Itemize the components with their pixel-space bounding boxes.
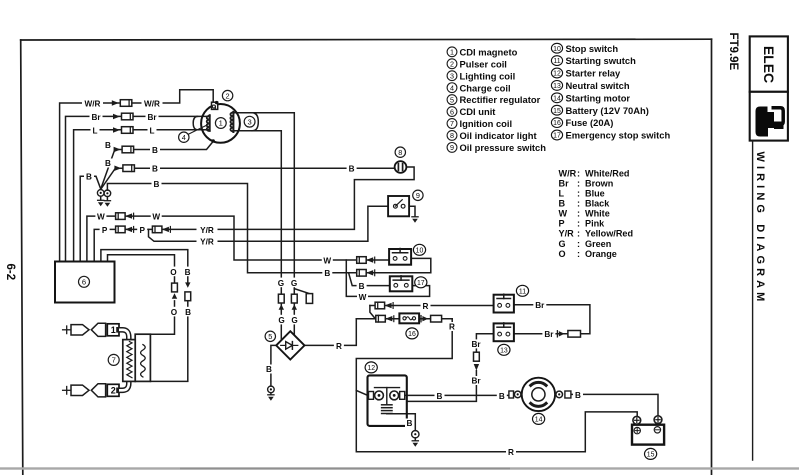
svg-text:B: B: [499, 392, 505, 401]
label pointer line for charge coil: [188, 125, 206, 134]
svg-text:Y/R: Y/R: [559, 229, 575, 239]
svg-text:Br: Br: [544, 330, 554, 339]
svg-text:W: W: [323, 256, 331, 265]
wire Br neutral switch to starter relay: [407, 334, 494, 402]
svg-text:Br: Br: [559, 178, 570, 188]
svg-text:14: 14: [535, 417, 543, 424]
wire B ground lead from CDI unit: [80, 176, 100, 262]
svg-text:B: B: [185, 308, 191, 317]
svg-text:L: L: [559, 189, 565, 199]
wire Br starting switch to neutral switch: [514, 305, 590, 334]
svg-text:G: G: [559, 239, 566, 249]
svg-text:7: 7: [112, 356, 116, 365]
svg-text:FT9.9E: FT9.9E: [727, 33, 739, 71]
sidebar WIRING DIAGRAM text: [754, 152, 766, 306]
svg-text:1: 1: [450, 48, 454, 57]
svg-text:9: 9: [416, 191, 420, 200]
reference circle 4 charge coil: [179, 132, 189, 142]
svg-text:Y/R: Y/R: [200, 226, 214, 235]
reference circle 7 ignition coil: [108, 354, 119, 365]
svg-text:17: 17: [417, 280, 425, 287]
wire B branch to emergency stop switch: [349, 273, 390, 286]
svg-text::: :: [577, 199, 580, 209]
svg-text::: :: [577, 189, 580, 199]
reference circle 6 CDI unit: [79, 276, 90, 287]
svg-text:B: B: [559, 199, 566, 209]
wire R fuse row: [356, 318, 452, 320]
svg-text:Oil indicator light: Oil indicator light: [460, 130, 537, 141]
svg-text:W: W: [152, 213, 160, 222]
svg-text::: :: [577, 168, 580, 178]
oil pressure switch S5 box: [388, 196, 409, 216]
charge coil winding symbol: [193, 115, 210, 131]
ring terminal at rectifier ground: [268, 386, 275, 393]
reference circle 3 lighting coil: [244, 116, 255, 127]
starting motor M1: [509, 378, 571, 411]
svg-text:13: 13: [553, 83, 561, 90]
CDI magneto U1 outer circle: [201, 104, 240, 143]
starter relay K1 box: [368, 375, 407, 426]
sidebar icon box: [750, 92, 788, 141]
svg-text:2: 2: [450, 59, 454, 68]
svg-text:P: P: [139, 226, 145, 235]
svg-text:R: R: [423, 302, 429, 311]
spark plug 1: [63, 323, 119, 336]
svg-text:Starting motor: Starting motor: [566, 92, 631, 103]
svg-text:14: 14: [553, 95, 561, 102]
bullet connector on W/R wire: [112, 100, 132, 107]
bullet connector on B wire 1: [114, 146, 134, 153]
svg-text:B: B: [105, 141, 111, 150]
svg-text::: :: [577, 178, 580, 188]
svg-text:O: O: [171, 308, 178, 317]
reference circle 9 oil pressure switch: [413, 190, 423, 200]
svg-text:Emergency stop switch: Emergency stop switch: [566, 130, 671, 141]
svg-text:L: L: [92, 126, 97, 135]
wire B starter relay to starting motor: [404, 394, 509, 396]
node junction dot at pulser coil: [215, 101, 218, 104]
svg-text:15: 15: [647, 452, 655, 459]
wire R to starting switch: [370, 305, 494, 307]
bullet connector on G wire right: [291, 294, 297, 310]
bullet connector at fuse output: [421, 315, 442, 322]
wire W (CDI to stop switch): [87, 216, 389, 262]
svg-text:Neutral switch: Neutral switch: [566, 80, 630, 91]
svg-text:P: P: [559, 219, 565, 229]
wire W branch to emergency stop switch: [346, 260, 429, 296]
reference circle 17 emergency stop switch: [415, 277, 427, 288]
svg-text:Black: Black: [585, 199, 610, 209]
bottom scan edge band: [0, 467, 799, 469]
node ground junction ring terminals: [97, 190, 110, 200]
svg-text:Br: Br: [535, 301, 545, 310]
svg-text:Charge coil: Charge coil: [460, 82, 511, 93]
svg-text:B: B: [105, 159, 111, 168]
bullet connector on Br wire below neutral switch: [474, 352, 480, 370]
svg-text:Starter relay: Starter relay: [566, 68, 622, 79]
svg-text:B: B: [152, 146, 158, 155]
page border frame: [21, 39, 712, 475]
svg-text:16: 16: [553, 120, 561, 127]
svg-text:W/R: W/R: [85, 99, 101, 108]
wire Y/R branch to oil pressure switch: [149, 206, 389, 241]
svg-text:Orange: Orange: [585, 249, 617, 259]
sidebar ELEC box: [750, 36, 788, 91]
svg-text:Br: Br: [91, 113, 101, 122]
svg-text:1: 1: [111, 325, 116, 335]
svg-text:B: B: [349, 165, 355, 174]
svg-text:6: 6: [450, 107, 454, 116]
svg-text:R: R: [508, 448, 514, 457]
wire R branch into starter relay: [356, 391, 368, 396]
reference circle 10 stop switch: [413, 244, 425, 255]
ignition coil T1: [123, 334, 151, 381]
starting switch S2 box: [494, 294, 514, 312]
wire R rectifier output: [305, 319, 357, 346]
svg-text:13: 13: [500, 347, 508, 354]
svg-text:CDI unit: CDI unit: [460, 106, 496, 117]
svg-text:3: 3: [450, 71, 454, 80]
bullet connector on B wire at stop switch: [357, 270, 375, 277]
wire G lighting coil lower: [233, 131, 281, 340]
ring terminal at relay ground: [412, 431, 419, 438]
page header FT9.9E: [727, 33, 739, 71]
rectifier regulator D1 diamond: [276, 331, 304, 359]
svg-text:Green: Green: [585, 239, 611, 249]
wire B magneto lead 2 to oil light: [101, 168, 395, 189]
svg-text:W: W: [559, 209, 568, 219]
svg-text:B: B: [185, 268, 191, 277]
svg-text:Brown: Brown: [585, 178, 613, 188]
wire O CDI unit to ignition coil: [108, 255, 175, 335]
bullet connector on R wire to starting switch: [375, 302, 393, 309]
svg-text:G: G: [291, 279, 297, 288]
spare connector near rectifier: [306, 294, 312, 304]
svg-text:10: 10: [553, 46, 561, 53]
legend list items 10-17: [551, 43, 670, 141]
svg-text:Starting swutch: Starting swutch: [566, 55, 637, 66]
svg-text:Stop switch: Stop switch: [566, 43, 619, 54]
svg-text:2: 2: [111, 386, 116, 396]
page number 6-2: [4, 264, 16, 281]
svg-text:WIRING DIAGRAM: WIRING DIAGRAM: [754, 152, 766, 306]
ground symbol at oil pressure switch: [412, 217, 418, 223]
CDI unit U2 box: [55, 262, 115, 303]
bullet connector on G wire left: [278, 294, 284, 310]
svg-text:B: B: [324, 269, 330, 278]
wire Br (CDI unit to charge coil): [66, 116, 210, 262]
bullet connector on Br wire to neutral switch: [557, 331, 580, 338]
svg-text:G: G: [291, 316, 297, 325]
bullet connector 1 on P wire: [116, 226, 134, 233]
reference circle 2 pulser coil: [222, 90, 232, 100]
svg-text:CDI magneto: CDI magneto: [460, 46, 518, 57]
svg-text:5: 5: [268, 332, 272, 341]
svg-text::: :: [577, 209, 580, 219]
wire name labels: [82, 98, 583, 457]
svg-text:ELEC: ELEC: [761, 46, 777, 83]
svg-text:8: 8: [450, 131, 454, 140]
ground symbol below starter relay: [412, 438, 418, 447]
svg-text:O: O: [170, 268, 177, 277]
svg-text:Br: Br: [147, 113, 157, 122]
svg-text:Y/R: Y/R: [200, 238, 214, 247]
svg-text:G: G: [278, 316, 284, 325]
wire B magneto frame lead 1: [101, 141, 213, 189]
svg-text:Br: Br: [471, 377, 481, 386]
svg-text::: :: [577, 229, 580, 239]
pulser coil P2 pickup box: [212, 102, 218, 109]
svg-text:10: 10: [416, 247, 424, 254]
wire R fuse to battery junction: [356, 319, 637, 452]
svg-text::: :: [577, 249, 580, 259]
reference circle 16 fuse: [406, 328, 418, 339]
svg-text:Br: Br: [471, 340, 481, 349]
svg-text:White: White: [585, 209, 610, 219]
svg-text:P: P: [102, 226, 108, 235]
reference circle 13 neutral switch: [498, 344, 510, 355]
svg-text:1: 1: [219, 119, 223, 128]
bullet connector on W wire: [116, 213, 134, 220]
battery BT1: [632, 416, 664, 445]
diode symbol inside rectifier: [281, 342, 298, 350]
svg-text:4: 4: [182, 133, 186, 142]
svg-text:7: 7: [450, 119, 454, 128]
svg-text:6-2: 6-2: [4, 264, 16, 281]
reference circle 1 CDI magneto: [215, 118, 226, 129]
sidebar ELEC text: [761, 46, 777, 83]
svg-text:B: B: [266, 365, 272, 374]
bullet connector on L wire: [113, 127, 133, 134]
reference circle 15 battery: [645, 448, 657, 459]
bullet connector on W wire at stop switch: [357, 257, 375, 264]
emergency stop switch S6 box: [390, 276, 413, 292]
svg-text:Fuse (20A): Fuse (20A): [566, 117, 614, 128]
svg-text:White/Red: White/Red: [585, 168, 629, 178]
svg-text:Rectifier regulator: Rectifier regulator: [460, 94, 541, 105]
reference circle 12 starter relay: [365, 362, 377, 373]
stop switch S1 box: [389, 249, 411, 265]
wire W/R (CDI unit to pulser coil): [60, 90, 214, 262]
svg-text:Pink: Pink: [585, 219, 605, 229]
bullet connector on B wire 2: [114, 165, 134, 172]
ground symbol below rectifier: [268, 393, 274, 401]
svg-text:9: 9: [450, 143, 454, 152]
wire from oil pressure switch to ground: [409, 206, 415, 216]
svg-text:3: 3: [247, 117, 251, 126]
wire B relay coil to ground: [387, 414, 416, 431]
wire R fuse input hook: [370, 306, 375, 319]
oil indicator light L1 lamp: [395, 161, 407, 173]
bullet connector on O wire: [172, 283, 178, 299]
bullet connector on Br wire: [113, 113, 133, 120]
wire B bus to stop switches: [107, 184, 430, 273]
svg-text:W/R: W/R: [144, 99, 160, 108]
high tension lead to spark plug 1: [119, 330, 129, 341]
neutral switch S3 box: [494, 323, 514, 341]
svg-text:B: B: [152, 165, 158, 174]
svg-text:2: 2: [226, 91, 230, 100]
svg-text:Yellow/Red: Yellow/Red: [585, 229, 633, 239]
bullet connector on R wire at fuse input: [376, 315, 394, 322]
fuse F1 box: [399, 313, 419, 323]
legend list items 1-9: [447, 46, 546, 153]
svg-text:W/R: W/R: [559, 168, 577, 178]
reference circle 5 rectifier regulator: [265, 331, 275, 341]
svg-text:Battery (12V 70Ah): Battery (12V 70Ah): [566, 105, 649, 116]
bullet connector on B wire to ignition coil: [185, 282, 191, 300]
wire P / Y-R (CDI to oil indicator light): [94, 167, 414, 262]
svg-text:6: 6: [82, 278, 86, 287]
svg-text:G: G: [278, 279, 284, 288]
svg-text:16: 16: [408, 331, 416, 338]
svg-text:L: L: [149, 126, 154, 135]
bullet connector 2 on P wire: [152, 226, 170, 233]
svg-text:B: B: [86, 173, 92, 182]
svg-text:12: 12: [367, 365, 375, 372]
svg-text:Pulser coil: Pulser coil: [460, 58, 507, 69]
reference circle 11 starting switch: [516, 285, 528, 296]
svg-text:O: O: [559, 249, 566, 259]
high tension lead to spark plug 2: [119, 380, 129, 390]
svg-text:Lighting coil: Lighting coil: [460, 70, 516, 81]
svg-text:11: 11: [519, 288, 526, 295]
wire B starting motor to battery: [571, 394, 658, 415]
ground symbol pair below magneto leads: [98, 200, 111, 206]
svg-text:Blue: Blue: [585, 189, 605, 199]
svg-text::: :: [577, 219, 580, 229]
svg-text:Ignition coil: Ignition coil: [460, 118, 513, 129]
svg-text::: :: [577, 239, 580, 249]
lighting coil winding symbol: [230, 112, 258, 132]
reference circle 8 oil indicator light: [395, 147, 405, 157]
svg-text:17: 17: [553, 133, 561, 140]
wire B rectifier to ground: [271, 345, 276, 386]
wire color code legend: [559, 168, 634, 258]
svg-text:B: B: [154, 180, 160, 189]
svg-text:R: R: [336, 342, 342, 351]
svg-text:W: W: [97, 213, 105, 222]
svg-text:W: W: [359, 293, 367, 302]
sidebar separator line: [752, 141, 754, 460]
svg-text:B: B: [407, 419, 413, 428]
svg-text:12: 12: [553, 71, 561, 78]
svg-text:R: R: [449, 323, 455, 332]
node junction dot at magneto bottom: [212, 139, 215, 142]
svg-text:5: 5: [450, 95, 454, 104]
reference circle 14 starting motor: [533, 413, 545, 424]
spark plug 2: [63, 384, 119, 397]
svg-text:B: B: [359, 282, 365, 291]
svg-text:B: B: [575, 391, 581, 400]
svg-text:Oil pressure switch: Oil pressure switch: [460, 142, 547, 153]
svg-text:B: B: [437, 392, 443, 401]
svg-text:11: 11: [553, 58, 560, 65]
svg-text:8: 8: [398, 148, 402, 157]
sidebar electrical connector icon: [756, 107, 784, 137]
wire G stub to spare connector: [294, 289, 309, 294]
wire G lighting coil upper: [233, 113, 294, 335]
wire B CDI unit to ignition coil: [101, 250, 188, 382]
svg-text:4: 4: [450, 83, 454, 92]
wire L (CDI unit to charge coil): [74, 130, 210, 262]
svg-text:15: 15: [553, 108, 561, 115]
